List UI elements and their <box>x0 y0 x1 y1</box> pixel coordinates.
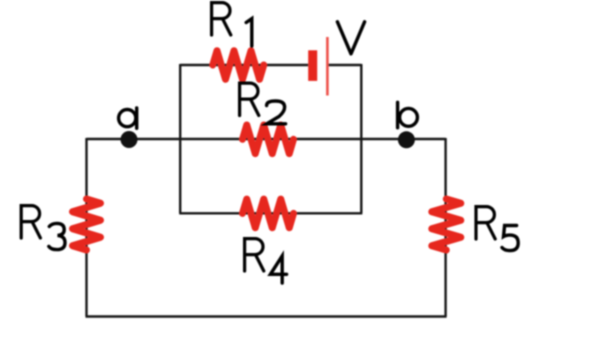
resistor R3 <box>73 199 101 250</box>
battery V negative plate (thick short bar) <box>308 50 317 81</box>
wire: outer right vertical <box>444 138 446 317</box>
label V (battery) <box>337 22 364 54</box>
label R1: letter R <box>212 3 231 35</box>
wire: inner box top-left segment to battery <box>180 64 308 66</box>
label R3: subscript 3 <box>49 223 65 249</box>
label R5: letter R <box>476 207 495 239</box>
wire: inner box left vertical <box>179 64 181 213</box>
label R2: subscript 2 <box>267 101 286 124</box>
label R3: letter R <box>21 206 40 238</box>
wire: outer bottom <box>86 315 447 317</box>
wire: middle horizontal a-b <box>87 138 446 140</box>
node a junction dot <box>121 131 138 148</box>
wire: inner box bottom <box>179 212 362 214</box>
wire: inner box right vertical <box>360 64 362 213</box>
label b (node b) <box>398 102 418 127</box>
wire: battery to inner box top-right corner <box>329 64 362 66</box>
battery V positive plate (thin long line) <box>326 37 329 96</box>
label R1: subscript 1 <box>246 19 252 46</box>
wire: outer left vertical <box>85 138 87 317</box>
label a (node a) <box>119 108 137 128</box>
resistor R2 <box>243 125 294 154</box>
label R4: letter R <box>245 239 264 271</box>
resistor R4 <box>243 199 294 228</box>
label R5: subscript 5 <box>502 226 518 251</box>
resistor R1 <box>213 51 264 80</box>
node b junction dot <box>398 131 415 148</box>
resistor R5 <box>432 199 461 250</box>
label R4: subscript 4 <box>270 256 286 283</box>
label R2: letter R <box>240 83 259 115</box>
